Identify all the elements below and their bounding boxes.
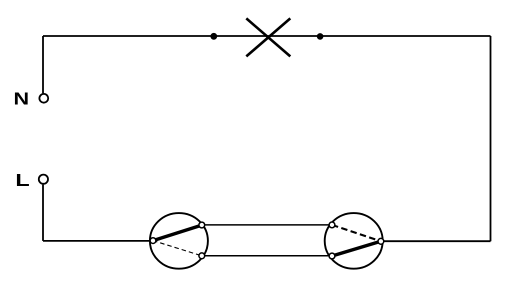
svg-text:L: L [15,170,30,190]
switch S1 common terminal [150,238,156,244]
terminal L circle [39,175,48,184]
switch S1 terminal top [199,222,205,228]
switch S1 lever dashed [153,241,202,256]
junction dot right [317,33,324,40]
switch S2 terminal bottom [329,253,335,259]
terminal N circle [39,94,48,103]
wire top horizontal N-side [43,35,491,37]
wire L drop vertical [42,185,44,241]
wire bottom right horizontal [381,240,491,242]
switch S1 lever solid [153,225,202,241]
wire N drop vertical [42,36,44,93]
junction dot left [210,33,217,40]
wire traveller top between switches [202,224,332,226]
switch S2 body circle [325,213,383,269]
wire bottom left horizontal [43,240,153,242]
switch S1 terminal bottom [199,253,205,259]
wire right vertical [490,36,492,241]
switch S2 common terminal [378,238,384,244]
switch S2 lever solid [332,241,381,256]
lamp X1 cross [246,18,290,56]
switch S2 lever dashed [332,225,381,241]
svg-text:N: N [14,89,30,109]
switch S1 body circle [150,213,208,269]
wire traveller bottom between switches [202,255,332,257]
switch S2 terminal top [329,222,335,228]
